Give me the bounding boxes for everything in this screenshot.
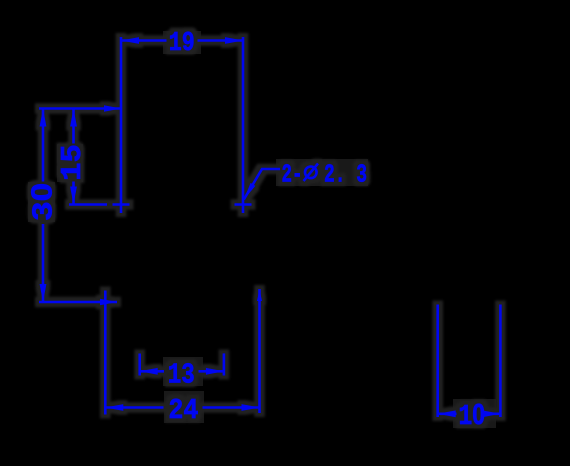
jpeg artifact halo layer [27, 29, 501, 433]
main blue linework [27, 29, 501, 433]
jpeg block artifacts behind texts [28, 31, 496, 428]
